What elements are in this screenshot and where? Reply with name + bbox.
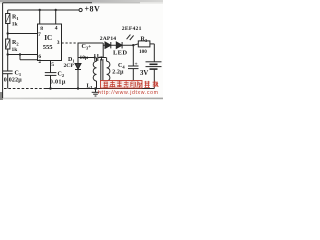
wire pin2 <box>20 59 38 61</box>
wire pin5 <box>50 61 52 73</box>
wire R3 to battery <box>150 43 154 45</box>
svg-text:IC: IC <box>44 34 52 42</box>
svg-text:R3: R3 <box>141 36 148 43</box>
svg-text:+: + <box>135 62 138 68</box>
wire R1 top <box>7 10 9 14</box>
wire node A drop <box>77 43 79 58</box>
node C2-rail <box>49 87 51 89</box>
ground rail dashed left <box>4 88 46 90</box>
svg-text:R2: R2 <box>12 40 19 47</box>
svg-text:+8V: +8V <box>85 4 101 13</box>
diode row wire <box>103 44 133 46</box>
svg-text:10μ: 10μ <box>80 55 88 61</box>
svg-text:1k: 1k <box>12 47 19 53</box>
svg-text:0.022μ: 0.022μ <box>4 77 22 83</box>
node T-ground <box>94 87 97 90</box>
wire R1-R2 <box>7 24 9 40</box>
svg-text:0.01μ: 0.01μ <box>50 78 66 85</box>
svg-text:T: T <box>100 57 104 63</box>
capacitor C4 <box>132 45 134 66</box>
svg-text:L1: L1 <box>87 84 94 91</box>
wire link 6-2 <box>19 55 21 60</box>
wire pin7 <box>8 33 38 35</box>
node R1-R2 <box>7 32 9 34</box>
wire R2-C1 <box>7 49 9 71</box>
svg-text:100: 100 <box>139 49 147 55</box>
border frame left <box>2 3 4 98</box>
watermark red box line1 <box>98 80 159 96</box>
svg-text:7: 7 <box>38 32 41 38</box>
node D1-rail <box>77 87 79 89</box>
diode 2AP14 <box>105 42 111 48</box>
transformer T secondary <box>107 58 110 89</box>
resistor R3 <box>138 41 150 47</box>
LED diode <box>116 42 122 48</box>
node rail-pin8 <box>39 9 41 11</box>
node link62 <box>19 53 21 55</box>
wire pin4 <box>55 10 57 24</box>
LED arrows <box>127 35 131 40</box>
svg-text:3V: 3V <box>140 70 148 77</box>
capacitor C3 plates <box>94 54 96 61</box>
battery B1 <box>146 61 162 63</box>
svg-text:2: 2 <box>38 59 41 65</box>
capacitor C2 <box>45 72 57 74</box>
transformer T primary L1 <box>93 58 96 89</box>
node LED-R3-C4 <box>132 44 134 46</box>
watermark glyphs after box <box>144 81 158 88</box>
text labels <box>4 4 149 90</box>
diode D1 <box>77 58 79 64</box>
svg-text:555: 555 <box>43 44 54 51</box>
transformer core <box>100 59 102 83</box>
node C3-T <box>94 56 96 58</box>
ground rail solid <box>46 88 154 90</box>
svg-text:2.2μ: 2.2μ <box>112 70 124 76</box>
junction dots <box>7 9 135 90</box>
svg-text:R1: R1 <box>12 15 19 22</box>
node R2-C1 <box>7 53 9 55</box>
background paper <box>0 0 163 100</box>
wire pin3 to node B <box>78 42 103 44</box>
svg-text:2CP: 2CP <box>64 63 75 69</box>
svg-text:1k: 1k <box>12 22 19 28</box>
resistor R2 <box>6 39 10 49</box>
wire pin8 <box>39 10 41 24</box>
+8V terminal <box>79 8 82 11</box>
svg-text:http://www.jdtxw.com: http://www.jdtxw.com <box>98 90 159 96</box>
top +8V rail <box>8 9 79 11</box>
border frame top <box>3 2 92 4</box>
svg-text:3: 3 <box>57 40 60 46</box>
wire node B drop <box>102 43 104 58</box>
svg-text:C2: C2 <box>58 72 65 79</box>
wire C3 bottom left <box>78 57 95 59</box>
svg-text:5: 5 <box>51 62 54 68</box>
svg-text:C1: C1 <box>15 71 22 78</box>
op-amp U1 IC 555 box <box>38 24 62 61</box>
capacitor C1 <box>3 70 13 72</box>
svg-text:2EF421: 2EF421 <box>122 26 142 32</box>
svg-text:2AP14: 2AP14 <box>100 36 116 42</box>
svg-text:C3+: C3+ <box>82 44 92 51</box>
svg-text:4: 4 <box>55 26 58 32</box>
resistor R1 <box>6 14 10 24</box>
node rail-pin4 <box>55 9 57 11</box>
bottom grey scan line <box>0 98 163 100</box>
wire C3 bottom right <box>98 57 107 59</box>
wire pin6 <box>8 54 38 56</box>
wire C2 to rail <box>50 75 52 88</box>
svg-text:LED: LED <box>113 49 127 56</box>
wire pin3 dashed <box>62 42 79 44</box>
ground symbol <box>95 89 97 93</box>
watermark glyphs drawn <box>104 80 142 88</box>
wire C1 to ground rail <box>7 74 9 89</box>
